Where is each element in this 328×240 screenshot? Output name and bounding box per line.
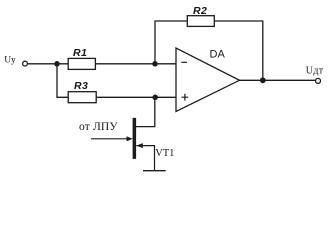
svg-text:R1: R1	[73, 47, 87, 59]
resistor R1	[68, 58, 95, 69]
wire R3 to op-amp noninverting input	[96, 96, 176, 98]
noninverting input plus sign	[182, 94, 189, 101]
source wire to ground	[136, 146, 154, 171]
output terminal	[316, 78, 321, 83]
svg-text:R3: R3	[74, 80, 88, 92]
svg-text:VT1: VT1	[155, 148, 174, 159]
input terminal	[23, 61, 28, 66]
resistor R2	[187, 16, 214, 27]
wire R2 to output node	[214, 21, 262, 80]
feedback wire up and over to R2	[155, 21, 187, 64]
junction noninverting node	[152, 95, 158, 101]
svg-text:от ЛПУ: от ЛПУ	[79, 121, 118, 133]
wire R1 to op-amp inverting input	[95, 63, 176, 65]
source arrowhead	[136, 143, 143, 148]
junction inverting node	[152, 61, 158, 67]
wire input node down to R3	[57, 64, 68, 98]
ground bar	[143, 170, 166, 172]
inverting input minus sign	[181, 61, 187, 63]
junction output node	[260, 77, 266, 83]
op-amp DA	[176, 48, 240, 112]
svg-text:R2: R2	[193, 5, 207, 17]
transistor VT1 channel bar	[133, 118, 137, 159]
wire noninverting node down to transistor drain	[136, 97, 155, 126]
gate wire from LPU	[91, 138, 128, 140]
svg-text:Uдт: Uдт	[306, 66, 324, 77]
wire input to R1	[28, 63, 69, 65]
junction input node	[54, 61, 60, 67]
svg-text:DA: DA	[210, 49, 226, 61]
gate arrowhead	[127, 136, 133, 141]
svg-text:Uy: Uy	[4, 56, 16, 66]
resistor R3	[68, 92, 96, 103]
output wire	[240, 79, 316, 81]
